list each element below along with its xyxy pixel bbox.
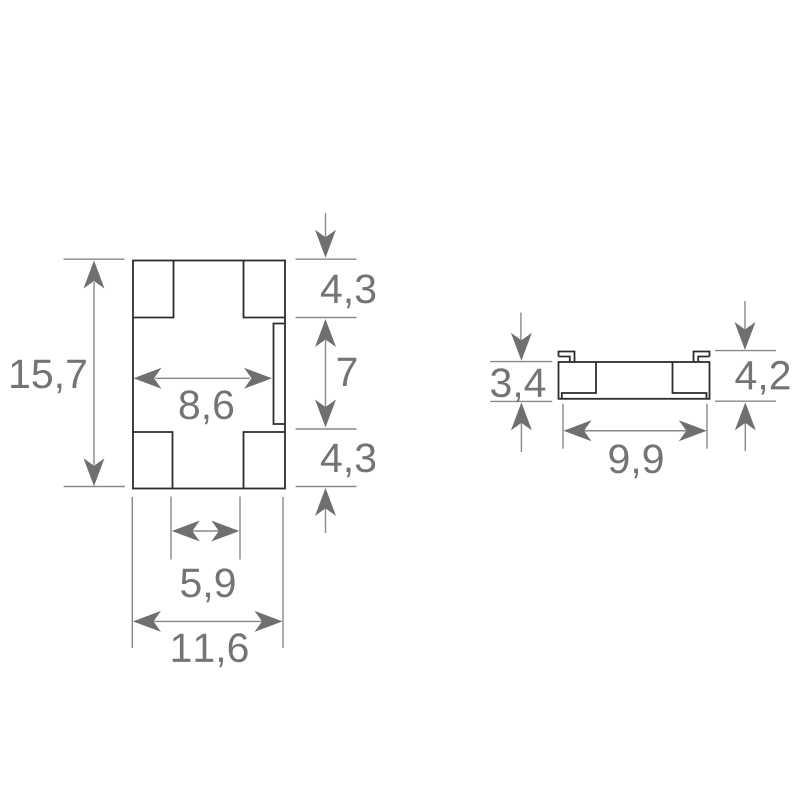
top-left pad notch [133,261,174,318]
ext line right stack 2 [296,317,357,319]
arrow 8,6 left [134,368,162,389]
arrow 3,4 down [511,333,532,361]
ext line 9,9 right [706,404,708,449]
ext line bottom outer right [282,497,284,648]
arrowheads [84,230,756,632]
arrow 9,9 right [679,420,707,441]
side view left pad block [562,362,596,399]
ext line right stack 1 [296,258,357,260]
ext line 3,4 bottom [490,400,552,402]
ext line 3,4 top [490,361,552,363]
dim shaft 15,7 [93,282,95,465]
arrow 5,9 left [172,521,200,542]
shaft below 4,2 [744,422,746,451]
ext line 9,9 left [562,404,564,449]
side view body outline [559,362,710,399]
ext line 15,7 bottom [64,486,126,488]
label 4,3 [321,274,375,308]
label 4,2 [735,361,789,395]
dim shaft 8,6 [155,377,250,379]
arrow 4,2 down [735,322,756,350]
arrow 5,9 right [211,521,239,542]
ext line bottom inner right [239,497,241,560]
ext line 15,7 top [64,258,125,260]
thin gray dimension/extension lines [64,213,777,648]
shaft above 4,2 [744,301,746,330]
label 9,9 [609,444,662,478]
arrow 9,9 left [564,420,592,441]
ext line 4,2 bottom [715,400,776,402]
label 7 [338,358,357,386]
bottom-right pad notch [244,432,286,489]
label 11,6 [173,633,248,667]
dim shaft 9,9 [584,430,686,432]
side view right pad block [673,362,707,399]
label 8,6 [180,390,233,424]
arrow top 4,3 down [315,230,336,258]
label 4,3 [321,443,375,477]
side view left hook tab [559,352,575,363]
ext line bottom outer left [131,497,133,648]
arrow 7 up [315,319,336,347]
arrow 15,7 up [84,261,105,289]
arrow 7 down [315,400,336,428]
right-side slot [274,324,286,425]
dim shaft 7 [325,340,327,407]
arrow 3,4 up [511,402,532,430]
ext line bottom inner left [170,497,172,560]
dim shaft 11,6 [154,620,263,622]
label 5,9 [181,568,235,602]
top view body outline [133,261,285,489]
label 15,7 [11,360,86,393]
side view right hook tab [694,352,710,363]
shaft below 3,4 [520,422,522,452]
ext line right stack 4 [296,486,357,488]
ext line 4,2 top [715,350,776,352]
label 3,4 [491,368,545,402]
dim shaft 5,9 [192,530,219,532]
shaft above 3,4 [520,313,522,342]
top-right pad notch [244,261,286,318]
shaft below bottom 4,3 [325,507,327,533]
bottom-left pad notch [133,432,173,489]
shaft above top 4,3 [325,213,327,238]
ext line right stack 3 [296,428,357,430]
arrow bottom 4,3 up [315,488,336,516]
arrow 11,6 right [255,611,283,632]
arrow 15,7 down [84,458,105,486]
arrow 4,2 up [735,402,756,430]
arrow 11,6 left [133,611,161,632]
arrow 8,6 right [244,368,272,389]
